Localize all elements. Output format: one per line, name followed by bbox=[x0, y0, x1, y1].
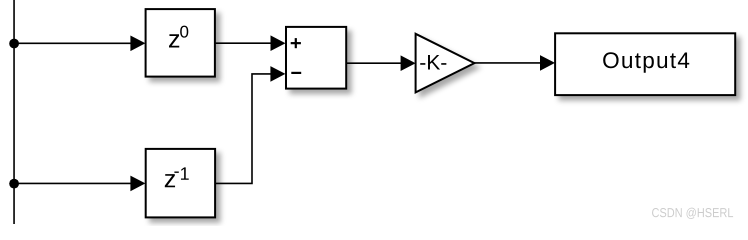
wire: bus to z0 block input bbox=[14, 36, 146, 52]
sum block U1 bbox=[286, 27, 346, 89]
delay block Z0 bbox=[146, 9, 215, 77]
wire: z0 output to sum plus input bbox=[215, 35, 286, 51]
outport block Output4 bbox=[555, 33, 735, 95]
wire: sum output to gain input bbox=[346, 55, 415, 71]
wire: gain output to Output4 bbox=[474, 55, 555, 71]
plus sign bbox=[291, 42, 301, 44]
wire: bus to z-1 block input bbox=[14, 176, 146, 192]
gain block -K- bbox=[416, 34, 475, 93]
wire: z-1 output up to sum minus input bbox=[215, 66, 285, 183]
node junction dot lower bbox=[9, 179, 19, 189]
minus sign bbox=[291, 72, 301, 74]
watermark CSDN @HSERL bbox=[652, 208, 733, 219]
wire: left vertical bus line bbox=[13, 0, 15, 224]
node junction dot upper bbox=[9, 39, 19, 49]
delay block Z-1 bbox=[146, 149, 215, 218]
